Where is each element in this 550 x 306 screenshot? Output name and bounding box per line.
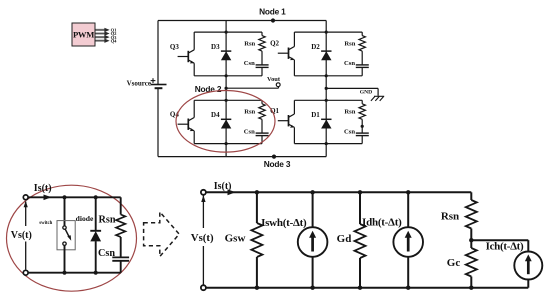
wire left bus lower segment — [157, 88, 159, 156]
voltage arrow Vs(t) — [11, 201, 32, 270]
wire Q1 cell bottom edge — [294, 143, 362, 145]
svg-text:Csn: Csn — [344, 128, 355, 135]
current source Ich(t-&#916;t) — [486, 240, 543, 288]
svg-text:Vs(t): Vs(t) — [191, 232, 214, 244]
svg-text:Rsn: Rsn — [244, 40, 255, 47]
wire Q2 cell bottom edge — [294, 75, 362, 77]
svg-text:Csn: Csn — [98, 248, 115, 259]
svg-text:GND: GND — [360, 90, 372, 96]
resistor Rsn (switch cell) — [99, 197, 126, 237]
svg-text:Q3: Q3 — [170, 43, 179, 51]
resistor Rsn (equivalent circuit) — [441, 192, 477, 240]
junction dots right diode column — [325, 30, 328, 145]
PWM gate signal arrow Q2 — [96, 31, 118, 36]
terminal Vout — [267, 76, 281, 87]
PWM gate signal arrow Q3 — [96, 35, 118, 40]
capacitor Csn (Q1 cell) — [344, 119, 369, 143]
capacitor Csn (Q2 cell) — [344, 51, 369, 76]
capacitor Csn (switch cell) — [98, 237, 129, 273]
svg-text:Rsn: Rsn — [344, 109, 355, 116]
svg-text:Csn: Csn — [244, 128, 255, 135]
current arrow Is(t) — [34, 183, 52, 200]
resistor Gsw — [225, 192, 263, 287]
diode D3 — [211, 43, 231, 61]
resistor Rsn (Q1 cell) — [344, 100, 365, 119]
svg-text:Vout: Vout — [267, 76, 281, 83]
svg-text:D4: D4 — [211, 111, 220, 119]
resistor Gd — [337, 192, 366, 287]
transistor Q1 — [270, 100, 294, 143]
current source Iswh(t-&#916;t) — [261, 192, 327, 287]
svg-text:Is(t): Is(t) — [34, 183, 52, 194]
PWM gate signal arrow Q1 — [96, 28, 118, 33]
terminal Is(t) (top port) — [23, 195, 28, 200]
node Node 1 — [259, 7, 286, 23]
PWM controller block — [72, 23, 95, 46]
wire Q1 cell top edge — [294, 99, 362, 101]
junction dots Gd — [358, 190, 362, 290]
svg-text:Q1: Q1 — [270, 107, 279, 115]
svg-text:Csn: Csn — [244, 60, 255, 67]
node Node 2 — [195, 84, 222, 94]
wire bottom rail (Node 3 bus) — [158, 156, 326, 158]
junction dots diode branch — [94, 195, 98, 275]
wire bottom rail (equivalent circuit) — [206, 287, 528, 289]
wire Q2 cell top edge — [294, 31, 362, 33]
diode D1 — [311, 111, 331, 129]
wire bottom rail (switch cell) — [28, 272, 121, 274]
wire Q4 cell top edge — [194, 99, 262, 101]
junction dots Idh — [406, 190, 410, 290]
svg-text:Gsw: Gsw — [225, 232, 246, 244]
terminal top port (equivalent circuit) — [201, 190, 206, 195]
junction dots switch branch — [62, 195, 66, 275]
junction dots Gsw — [255, 190, 259, 290]
svg-text:Rsn: Rsn — [441, 211, 459, 223]
node Node 3 — [264, 155, 291, 170]
wire Q3 cell bottom edge — [194, 75, 262, 77]
terminal bottom port (switch cell) — [23, 270, 28, 275]
dashed transform arrow — [144, 212, 180, 257]
junction dots left diode column — [225, 30, 228, 145]
ground GND — [360, 90, 384, 101]
current arrow Is(t) (equivalent circuit) — [214, 181, 236, 195]
resistor Rsn (Q4 cell) — [244, 100, 265, 119]
svg-text:Idh(t-Δt): Idh(t-Δt) — [362, 217, 402, 229]
svg-text:Ich(t-Δt): Ich(t-Δt) — [486, 240, 524, 252]
junction dot (Q1 snubber) — [361, 125, 364, 128]
terminal bottom port (equivalent circuit) — [201, 285, 206, 290]
svg-text:Q4: Q4 — [111, 38, 118, 43]
svg-text:Csn: Csn — [344, 60, 355, 67]
svg-text:Iswh(t-Δt): Iswh(t-Δt) — [261, 217, 307, 229]
switch — [39, 197, 75, 272]
PWM gate signal arrow Q4 — [96, 38, 118, 43]
junction dots Rsn-Gc — [469, 238, 473, 290]
svg-text:Vsource: Vsource — [127, 80, 151, 88]
junction dots Iswh — [310, 190, 314, 290]
svg-text:Node 3: Node 3 — [264, 159, 291, 169]
wire to GND — [326, 88, 378, 95]
svg-text:Rsn: Rsn — [99, 215, 116, 226]
voltage arrow Vs(t) (equivalent circuit) — [191, 195, 214, 285]
svg-text:diode: diode — [76, 214, 94, 223]
svg-text:Node 1: Node 1 — [259, 7, 286, 17]
resistor Rsn (Q2 cell) — [344, 32, 365, 51]
svg-text:D1: D1 — [311, 111, 320, 119]
resistor Rsn (Q3 cell) — [244, 32, 265, 51]
wire Node 2 to Vout — [226, 87, 278, 89]
svg-text:D2: D2 — [311, 43, 320, 51]
svg-text:Gd: Gd — [337, 233, 352, 245]
resistor Gc — [447, 240, 477, 288]
wire D2-D1 branch (right diode column) — [325, 21, 327, 157]
wire Q4 cell bottom edge — [194, 143, 262, 145]
svg-text:PWM: PWM — [73, 30, 94, 40]
wire left bus upper segment — [157, 21, 159, 85]
transistor Q4 — [170, 100, 194, 143]
svg-text:D3: D3 — [211, 43, 220, 51]
current source Idh(t-&#916;t) — [362, 192, 423, 287]
wire top rail (equivalent circuit) — [206, 191, 471, 193]
capacitor Csn (Q4 cell) — [244, 119, 269, 143]
wire D3-D4 branch (left diode column) — [225, 21, 227, 157]
svg-text:Rsn: Rsn — [344, 40, 355, 47]
wire Q3 cell top edge — [194, 31, 262, 33]
svg-text:Q2: Q2 — [270, 40, 279, 48]
diode D4 — [211, 111, 231, 129]
wire top rail (Node 1 bus) — [158, 20, 326, 22]
red highlight ellipse (Q4 cell) — [176, 91, 275, 153]
diode D2 — [311, 43, 331, 61]
svg-text:switch: switch — [39, 221, 52, 226]
diode (switch cell) — [76, 197, 101, 272]
svg-text:Vs(t): Vs(t) — [11, 230, 32, 241]
transistor Q2 — [270, 32, 294, 76]
svg-text:Gc: Gc — [447, 257, 461, 269]
red highlight ellipse (switch cell) — [7, 185, 137, 291]
svg-text:Rsn: Rsn — [244, 109, 255, 116]
capacitor Csn (Q3 cell) — [244, 51, 269, 76]
wire Rsn-Gc node to Ich branch — [471, 239, 528, 241]
transistor Q3 — [170, 32, 194, 76]
voltage source Vsource (battery) — [127, 78, 167, 88]
wire top rail (switch cell) — [28, 196, 121, 198]
